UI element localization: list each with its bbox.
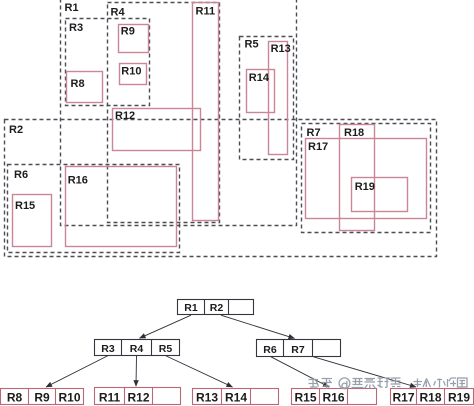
- svg-text:R13: R13: [271, 43, 291, 55]
- svg-text:R5: R5: [245, 39, 259, 51]
- svg-text:R2: R2: [210, 302, 224, 314]
- svg-text:R10: R10: [58, 391, 80, 405]
- svg-text:R3: R3: [101, 343, 115, 355]
- svg-text:R14: R14: [249, 72, 270, 84]
- svg-text:R8: R8: [71, 78, 85, 90]
- svg-text:R19: R19: [355, 181, 375, 193]
- svg-text:R7: R7: [307, 127, 321, 139]
- svg-text:R8: R8: [7, 391, 23, 405]
- svg-text:R1: R1: [65, 2, 79, 14]
- svg-text:R4: R4: [130, 343, 144, 355]
- svg-text:R6: R6: [14, 169, 28, 181]
- svg-text:R9: R9: [121, 26, 135, 38]
- svg-text:R3: R3: [69, 22, 83, 34]
- svg-text:R1: R1: [184, 302, 198, 314]
- svg-text:R18: R18: [344, 127, 364, 139]
- svg-text:R6: R6: [263, 344, 277, 356]
- svg-text:R7: R7: [291, 344, 305, 356]
- svg-text:R19: R19: [448, 391, 470, 405]
- svg-text:R15: R15: [15, 200, 35, 212]
- svg-text:R10: R10: [121, 66, 141, 78]
- svg-text:R17: R17: [392, 391, 414, 405]
- svg-text:R4: R4: [111, 7, 126, 19]
- svg-text:R11: R11: [99, 391, 121, 405]
- svg-text:R16: R16: [322, 391, 344, 405]
- svg-text:R12: R12: [127, 391, 149, 405]
- svg-text:R12: R12: [115, 110, 135, 122]
- svg-text:R13: R13: [196, 391, 218, 405]
- svg-text:R9: R9: [34, 391, 50, 405]
- svg-text:R2: R2: [9, 124, 23, 136]
- svg-text:R15: R15: [294, 391, 316, 405]
- svg-text:R18: R18: [419, 391, 441, 405]
- svg-text:R11: R11: [196, 6, 216, 18]
- svg-text:R14: R14: [225, 391, 247, 405]
- svg-text:R5: R5: [159, 343, 173, 355]
- svg-text:R16: R16: [68, 175, 88, 187]
- svg-text:R17: R17: [308, 141, 328, 153]
